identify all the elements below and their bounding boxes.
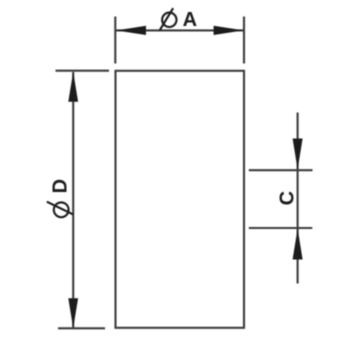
label A diameter symbol bbox=[160, 8, 177, 30]
extension line left (dim A) bbox=[114, 17, 116, 64]
svg-text:D: D bbox=[50, 179, 72, 193]
label D diameter symbol bbox=[47, 202, 74, 218]
dimension line C bbox=[297, 113, 299, 284]
arrowhead A left bbox=[116, 26, 146, 35]
dimension line D bbox=[72, 72, 74, 328]
extension line right (dim A) bbox=[243, 17, 245, 64]
extension tick bottom (dim D) bbox=[58, 327, 105, 329]
arrowhead A right bbox=[214, 26, 244, 35]
arrowhead C upper (points down) bbox=[293, 139, 303, 170]
svg-text:C: C bbox=[277, 191, 299, 205]
arrowhead C lower (points up) bbox=[293, 229, 303, 260]
extension tick lower (dim C) bbox=[249, 227, 312, 229]
svg-text:A: A bbox=[183, 9, 197, 31]
extension tick top (dim D) bbox=[56, 70, 110, 72]
arrowhead D up bbox=[68, 72, 78, 102]
arrowhead D down bbox=[68, 298, 78, 328]
dimension line A bbox=[116, 29, 244, 31]
part outline rectangle bbox=[116, 71, 245, 328]
extension tick upper (dim C) bbox=[249, 169, 313, 171]
